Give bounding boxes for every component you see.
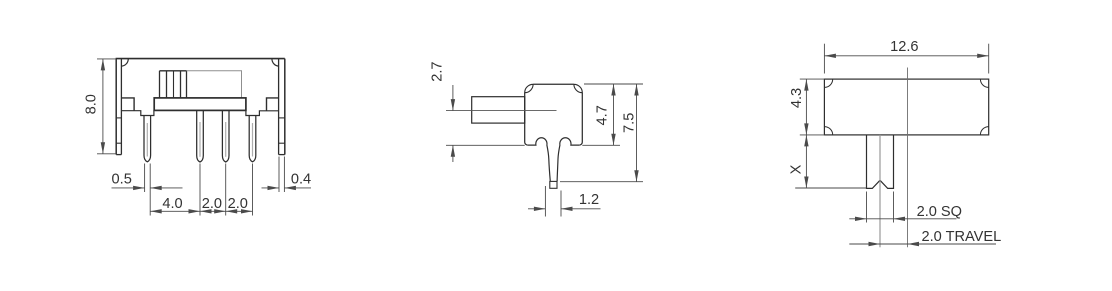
corner petal top-left bbox=[525, 84, 533, 92]
dimension 2.0 TRAVEL bbox=[849, 243, 996, 245]
svg-text:7.5: 7.5 bbox=[622, 113, 638, 133]
body center line bbox=[907, 68, 909, 248]
base plate bbox=[154, 98, 246, 111]
dimension 2.7 bbox=[452, 85, 454, 111]
right mounting bracket bbox=[284, 59, 286, 155]
pin tip square bbox=[550, 181, 557, 188]
svg-text:2.0: 2.0 bbox=[228, 196, 248, 212]
svg-text:2.7: 2.7 bbox=[430, 61, 446, 81]
svg-text:2.0: 2.0 bbox=[202, 196, 222, 212]
svg-text:X: X bbox=[789, 164, 805, 174]
svg-text:4.3: 4.3 bbox=[789, 88, 805, 108]
side body outline bbox=[525, 84, 583, 145]
dimension 8.0 bbox=[97, 58, 116, 60]
dimension 2.0 SQ bbox=[866, 192, 868, 223]
bottom edge with pin exit humps bbox=[528, 138, 551, 182]
svg-text:12.6: 12.6 bbox=[890, 39, 918, 55]
svg-text:4.7: 4.7 bbox=[594, 105, 610, 125]
svg-text:2.0 TRAVEL: 2.0 TRAVEL bbox=[922, 229, 1002, 245]
shaft (slider knob, top view) bbox=[867, 135, 894, 189]
pin 2 bbox=[197, 110, 204, 162]
shaft center line bbox=[879, 135, 881, 247]
dimension X bbox=[805, 135, 807, 188]
corner arc TL bbox=[824, 79, 832, 87]
svg-text:0.5: 0.5 bbox=[112, 171, 132, 187]
knob actuator (serrated left section) bbox=[160, 70, 187, 72]
dimension 7.5 bbox=[560, 181, 643, 183]
pin 3 bbox=[222, 110, 229, 162]
corner arc BL bbox=[824, 127, 832, 135]
side knob bbox=[472, 97, 525, 123]
dimension 12.6 bbox=[823, 44, 825, 74]
corner petal top-right bbox=[574, 84, 582, 92]
pin 4 bbox=[249, 116, 256, 162]
dimension 0.5 bbox=[144, 164, 146, 193]
dimension 4.3 bbox=[800, 78, 825, 80]
pin 1 bbox=[144, 116, 151, 162]
dimension 0.4 bbox=[278, 157, 280, 193]
svg-text:8.0: 8.0 bbox=[84, 94, 100, 114]
right bracket corner arc bbox=[272, 59, 279, 67]
knob center line bbox=[446, 110, 557, 112]
dimension 4.7 bbox=[584, 83, 643, 85]
left mounting bracket bbox=[115, 59, 117, 155]
svg-text:0.4: 0.4 bbox=[291, 171, 311, 187]
svg-text:1.2: 1.2 bbox=[579, 192, 599, 208]
dimension chain 4.0 / 2.0 / 2.0 bbox=[199, 164, 201, 216]
dimension 1.2 bbox=[544, 186, 546, 217]
left bracket corner arc bbox=[121, 59, 128, 67]
knob actuator right section bbox=[187, 71, 242, 98]
svg-text:2.0 SQ: 2.0 SQ bbox=[917, 204, 962, 220]
switch body top edge bbox=[116, 58, 285, 60]
corner arc BR bbox=[980, 127, 988, 135]
top view body rectangle bbox=[824, 79, 988, 135]
corner arc TR bbox=[980, 79, 988, 87]
right shoulder step bbox=[267, 98, 279, 111]
svg-text:4.0: 4.0 bbox=[162, 196, 182, 212]
left shoulder step bbox=[121, 98, 134, 111]
